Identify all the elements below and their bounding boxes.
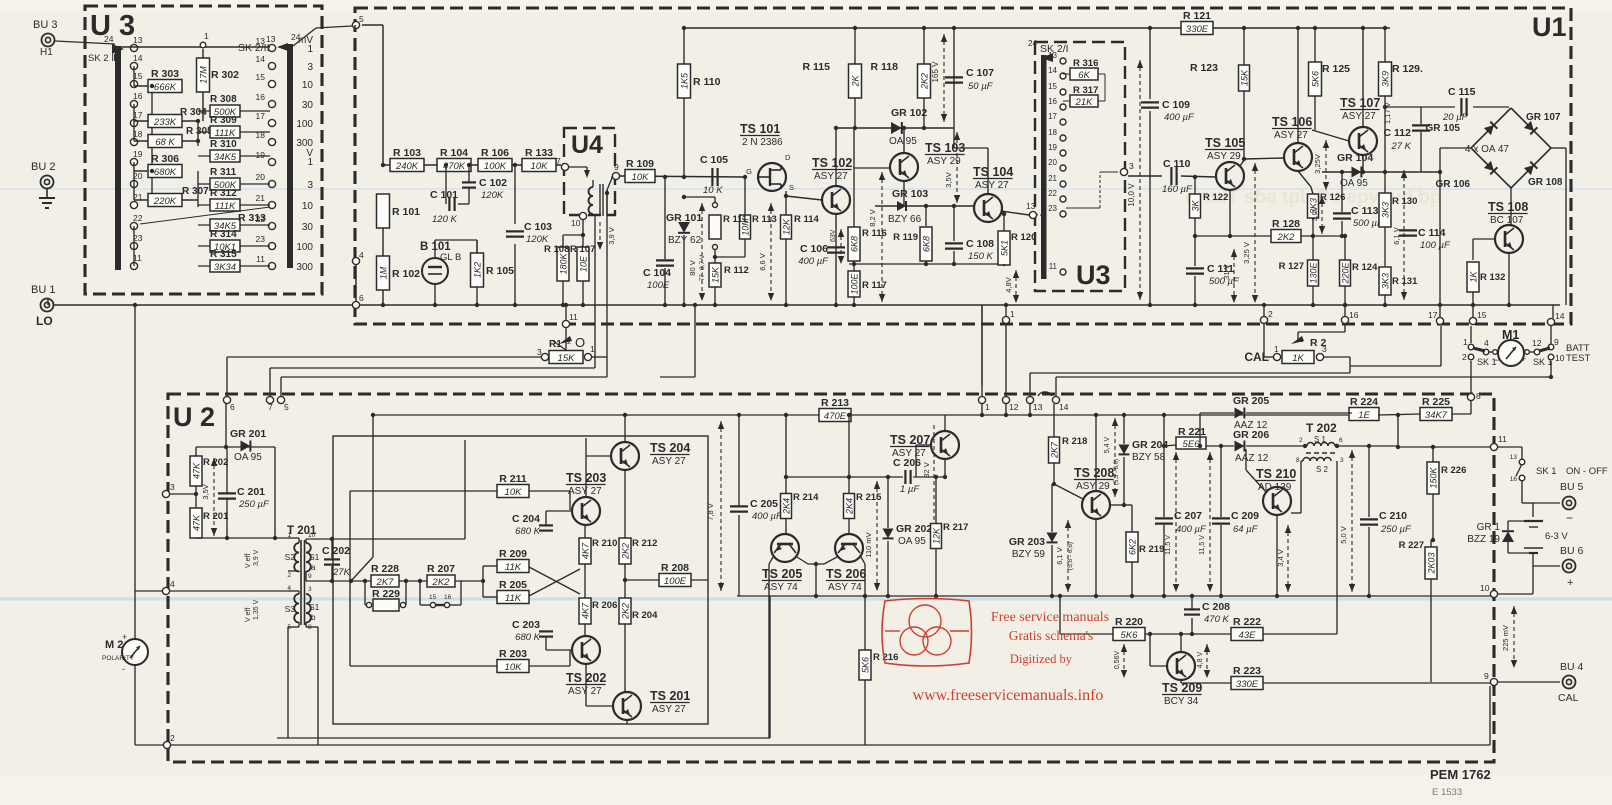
svg-text:R 111: R 111 (723, 214, 748, 225)
svg-text:23: 23 (256, 234, 266, 244)
svg-text:R 207: R 207 (427, 563, 455, 575)
svg-text:(5,3 - 6,0): (5,3 - 6,0) (1114, 459, 1120, 485)
svg-text:+: + (122, 632, 127, 642)
svg-text:S1: S1 (309, 602, 320, 612)
svg-text:GR 106: GR 106 (1436, 179, 1471, 190)
svg-text:R 204: R 204 (632, 610, 658, 621)
svg-text:R 314: R 314 (210, 229, 237, 240)
svg-text:BU 6: BU 6 (1560, 545, 1584, 557)
svg-text:1,35 V: 1,35 V (253, 599, 260, 620)
svg-text:T 202: T 202 (1306, 421, 1337, 435)
svg-text:5K6: 5K6 (861, 657, 871, 673)
svg-text:BU 3: BU 3 (33, 19, 57, 31)
svg-text:R 106: R 106 (481, 147, 509, 159)
svg-text:23: 23 (1048, 204, 1057, 213)
svg-text:Digitized by: Digitized by (1010, 652, 1073, 666)
svg-text:470E: 470E (824, 411, 847, 422)
svg-text:1K: 1K (1469, 271, 1479, 283)
svg-text:R 119: R 119 (893, 232, 918, 243)
svg-text:6-3 V: 6-3 V (1545, 531, 1568, 542)
svg-text:−: − (1494, 355, 1499, 365)
svg-text:R 132: R 132 (1480, 272, 1505, 283)
svg-text:15K: 15K (1240, 69, 1250, 86)
svg-text:27K: 27K (332, 567, 351, 578)
svg-text:GL B: GL B (440, 252, 461, 263)
svg-text:R 113: R 113 (752, 214, 777, 225)
svg-text:C 112: C 112 (1384, 127, 1412, 139)
svg-text:OA 95: OA 95 (889, 136, 917, 147)
svg-text:120 K: 120 K (432, 214, 457, 225)
svg-text:R 127: R 127 (1279, 261, 1304, 272)
svg-text:R 102: R 102 (392, 268, 420, 280)
svg-text:TS 102: TS 102 (812, 156, 852, 170)
svg-text:13: 13 (1510, 454, 1518, 461)
svg-text:GR 201: GR 201 (230, 428, 266, 440)
svg-text:H1: H1 (40, 47, 53, 58)
svg-text:2K03: 2K03 (1427, 552, 1437, 574)
svg-text:2K2: 2K2 (621, 543, 631, 560)
svg-text:R 107: R 107 (570, 244, 595, 255)
svg-text:400 µF: 400 µF (1164, 112, 1195, 123)
svg-text:680K: 680K (154, 167, 177, 178)
svg-text:18: 18 (1048, 128, 1057, 137)
svg-text:C 109: C 109 (1162, 99, 1190, 111)
svg-text:S: S (789, 183, 794, 192)
svg-text:3,9 V: 3,9 V (607, 227, 616, 245)
svg-text:110 mV: 110 mV (864, 532, 873, 557)
svg-text:S3: S3 (285, 604, 296, 614)
svg-text:50 µF: 50 µF (968, 81, 994, 92)
svg-text:5K6: 5K6 (1121, 630, 1139, 641)
svg-text:R 224: R 224 (1350, 396, 1378, 408)
svg-text:1: 1 (590, 344, 595, 354)
svg-text:BU 4: BU 4 (1560, 661, 1584, 673)
svg-text:C 207: C 207 (1174, 510, 1202, 522)
svg-text:2K: 2K (851, 75, 861, 88)
svg-text:111K: 111K (215, 201, 236, 212)
svg-text:R 110: R 110 (693, 76, 721, 88)
svg-text:16: 16 (133, 91, 143, 101)
svg-text:R 306: R 306 (151, 153, 179, 165)
svg-text:34K7: 34K7 (1425, 410, 1448, 421)
svg-text:S 2: S 2 (1316, 465, 1329, 474)
svg-text:R 206: R 206 (592, 600, 617, 611)
svg-text:20: 20 (1048, 158, 1057, 167)
svg-text:1M: 1M (379, 266, 389, 279)
svg-text:10: 10 (302, 201, 314, 212)
svg-text:1: 1 (307, 157, 313, 168)
svg-text:3: 3 (1322, 344, 1327, 354)
svg-text:D: D (785, 153, 791, 162)
svg-text:63V: 63V (830, 229, 837, 242)
svg-text:O: O (575, 335, 585, 350)
svg-text:C 102: C 102 (479, 177, 507, 189)
svg-text:680 K: 680 K (515, 632, 540, 643)
svg-text:ASY 29: ASY 29 (1076, 481, 1110, 492)
svg-text:C 205: C 205 (750, 498, 778, 510)
svg-text:ASY 27: ASY 27 (568, 486, 602, 497)
svg-text:111K: 111K (215, 128, 236, 139)
svg-text:2K2: 2K2 (621, 603, 631, 620)
svg-text:666K: 666K (154, 82, 177, 93)
svg-text:R 133: R 133 (525, 147, 553, 159)
svg-text:9: 9 (1554, 337, 1559, 347)
svg-text:8,2 V: 8,2 V (868, 209, 877, 227)
svg-text:ASY 74: ASY 74 (828, 582, 862, 593)
svg-text:7: 7 (268, 402, 273, 412)
svg-text:E 1533: E 1533 (1432, 787, 1462, 798)
svg-text:R 212: R 212 (632, 538, 657, 549)
svg-text:R 228: R 228 (371, 563, 399, 575)
svg-text:-: - (122, 664, 125, 674)
svg-text:17: 17 (1428, 310, 1438, 320)
svg-text:C 105: C 105 (700, 154, 728, 166)
svg-text:TS 106: TS 106 (1272, 115, 1312, 129)
svg-text:43E: 43E (1239, 630, 1257, 641)
svg-text:(5,8 - 6,6): (5,8 - 6,6) (1067, 542, 1074, 570)
svg-text:4,8 V: 4,8 V (1197, 652, 1204, 669)
svg-text:R 209: R 209 (499, 548, 527, 560)
svg-text:R 303: R 303 (151, 68, 179, 80)
svg-text:1: 1 (307, 44, 313, 55)
svg-text:a: a (311, 563, 316, 572)
svg-text:1: 1 (1010, 309, 1015, 319)
svg-text:17M: 17M (199, 66, 209, 84)
svg-text:POLARITY: POLARITY (102, 655, 135, 662)
svg-text:3,25 V: 3,25 V (1242, 242, 1251, 264)
svg-text:16: 16 (1349, 310, 1359, 320)
svg-text:17: 17 (256, 111, 266, 121)
svg-text:100: 100 (296, 242, 313, 253)
svg-text:R 226: R 226 (1441, 465, 1466, 476)
svg-text:2K4: 2K4 (782, 498, 792, 515)
svg-text:C 203: C 203 (512, 619, 540, 631)
svg-text:21K: 21K (1075, 97, 1094, 108)
svg-text:2K2: 2K2 (1277, 232, 1296, 243)
svg-text:GR 108: GR 108 (1528, 177, 1563, 188)
svg-text:ON - OFF: ON - OFF (1566, 466, 1608, 477)
svg-text:R 222: R 222 (1233, 616, 1261, 628)
svg-text:M 2: M 2 (105, 639, 123, 651)
svg-text:C 201: C 201 (237, 486, 265, 498)
svg-text:1: 1 (1274, 344, 1279, 354)
svg-text:80 V: 80 V (688, 260, 697, 275)
svg-text:10: 10 (308, 532, 316, 539)
svg-text:2: 2 (1299, 437, 1303, 444)
svg-text:R 120: R 120 (1011, 232, 1036, 243)
svg-text:CAL: CAL (1558, 692, 1579, 704)
svg-text:47K: 47K (192, 514, 202, 531)
svg-text:24: 24 (1028, 39, 1037, 48)
svg-text:OA 95: OA 95 (234, 452, 262, 463)
svg-text:21: 21 (1048, 174, 1057, 183)
svg-text:b: b (311, 613, 316, 622)
svg-text:R 223: R 223 (1233, 665, 1261, 677)
svg-text:3: 3 (537, 347, 542, 357)
svg-text:SK 2/II: SK 2/II (238, 42, 270, 54)
svg-text:30: 30 (302, 222, 314, 233)
svg-text:10: 10 (571, 218, 581, 228)
svg-text:R 220: R 220 (1115, 616, 1143, 628)
svg-text:R 218: R 218 (1062, 436, 1087, 447)
svg-text:6K2: 6K2 (1128, 539, 1138, 555)
svg-text:4 x OA 47: 4 x OA 47 (1465, 144, 1509, 155)
svg-text:ASY 29: ASY 29 (1207, 151, 1241, 162)
svg-text:ASY 27: ASY 27 (1274, 130, 1308, 141)
svg-text:TS 105: TS 105 (1205, 136, 1245, 150)
svg-text:GR 1: GR 1 (1477, 522, 1501, 533)
svg-text:19: 19 (133, 149, 143, 159)
svg-text:SK 1: SK 1 (1536, 466, 1557, 477)
svg-text:TS 107: TS 107 (1340, 96, 1380, 110)
svg-text:2 N 2386: 2 N 2386 (742, 137, 783, 148)
svg-text:400 µF: 400 µF (798, 256, 829, 267)
svg-text:R 211: R 211 (499, 473, 527, 485)
svg-text:R 219: R 219 (1139, 544, 1164, 555)
svg-text:120K: 120K (481, 190, 504, 201)
svg-text:130E: 130E (1309, 261, 1319, 283)
svg-text:AAZ 12: AAZ 12 (1235, 453, 1269, 464)
svg-text:1E: 1E (1358, 410, 1370, 421)
svg-text:1,17 V: 1,17 V (1383, 102, 1392, 124)
svg-text:9: 9 (308, 573, 312, 580)
svg-text:TS 208: TS 208 (1074, 466, 1114, 480)
svg-text:GR 107: GR 107 (1526, 112, 1561, 123)
svg-text:R 129.: R 129. (1392, 63, 1423, 75)
svg-text:21: 21 (256, 193, 266, 203)
svg-text:+: + (1521, 354, 1526, 364)
svg-text:Free service manuals: Free service manuals (991, 610, 1109, 625)
svg-text:R 210: R 210 (592, 538, 617, 549)
svg-text:1: 1 (1463, 337, 1468, 347)
svg-text:GR 202: GR 202 (896, 523, 932, 535)
svg-text:5K6: 5K6 (1311, 71, 1321, 87)
svg-text:11: 11 (1498, 434, 1507, 444)
svg-text:10: 10 (1480, 583, 1490, 593)
svg-text:V eff: V eff (245, 608, 252, 622)
svg-text:ASY 27: ASY 27 (814, 171, 848, 182)
svg-text:13: 13 (133, 35, 143, 45)
svg-text:19: 19 (256, 150, 266, 160)
svg-text:C 113: C 113 (1351, 205, 1379, 217)
svg-text:1: 1 (204, 31, 209, 41)
svg-text:220K: 220K (153, 196, 177, 207)
svg-text:20: 20 (256, 172, 266, 182)
svg-text:C 101: C 101 (430, 189, 458, 201)
svg-text:180K: 180K (559, 252, 569, 274)
svg-text:400 µF: 400 µF (752, 511, 783, 522)
svg-text:233K: 233K (153, 117, 177, 128)
svg-text:250 µF: 250 µF (238, 499, 270, 510)
svg-text:5E6: 5E6 (1183, 439, 1201, 450)
svg-text:4: 4 (1484, 338, 1489, 348)
svg-text:13: 13 (1026, 201, 1036, 211)
svg-text:R 309: R 309 (210, 115, 237, 126)
svg-text:−: − (1566, 511, 1573, 525)
svg-text:5: 5 (284, 402, 289, 412)
svg-text:14: 14 (1048, 66, 1057, 75)
svg-text:GR 203: GR 203 (1009, 536, 1045, 548)
svg-text:3K: 3K (1191, 200, 1201, 212)
svg-text:C 209: C 209 (1231, 510, 1259, 522)
svg-text:R 311: R 311 (210, 167, 237, 178)
svg-text:3K3: 3K3 (1381, 273, 1391, 289)
svg-text:R 130: R 130 (1392, 196, 1417, 207)
svg-text:400 µF: 400 µF (1176, 524, 1207, 535)
svg-text:SK 2 Ⅲ: SK 2 Ⅲ (88, 53, 118, 64)
svg-text:BU 5: BU 5 (1560, 481, 1584, 493)
svg-text:R 112: R 112 (724, 265, 749, 276)
svg-text:68 K: 68 K (155, 137, 175, 148)
svg-text:12K: 12K (932, 527, 942, 544)
svg-text:ASY 27: ASY 27 (652, 456, 686, 467)
svg-text:TS 201: TS 201 (650, 689, 690, 703)
svg-text:R 122: R 122 (1203, 192, 1228, 203)
svg-text:15: 15 (429, 594, 437, 601)
svg-text:12: 12 (1532, 338, 1542, 348)
svg-text:V eff: V eff (245, 554, 252, 568)
svg-text:ASY 27: ASY 27 (568, 686, 602, 697)
svg-text:www.freeservicemanuals.info: www.freeservicemanuals.info (913, 687, 1104, 704)
svg-text:R 310: R 310 (210, 139, 237, 150)
svg-text:1K: 1K (1292, 353, 1304, 364)
svg-text:2: 2 (287, 572, 291, 579)
svg-text:AD 139: AD 139 (1258, 482, 1292, 493)
svg-text:R 221: R 221 (1178, 426, 1206, 438)
svg-text:20 µF: 20 µF (1442, 112, 1469, 123)
svg-text:GR 206: GR 206 (1233, 429, 1269, 441)
svg-text:11,5 V: 11,5 V (1165, 535, 1172, 555)
svg-text:19: 19 (1048, 143, 1057, 152)
svg-text:16: 16 (444, 594, 452, 601)
svg-text:3,25V: 3,25V (1313, 154, 1322, 174)
svg-text:2K7: 2K7 (376, 577, 395, 588)
svg-text:330E: 330E (1186, 24, 1209, 35)
svg-text:BCY 34: BCY 34 (1164, 696, 1199, 707)
svg-text:47K: 47K (192, 462, 202, 479)
svg-text:7: 7 (556, 156, 561, 166)
svg-text:22: 22 (133, 213, 143, 223)
svg-text:1K5: 1K5 (680, 72, 690, 89)
svg-text:R 307: R 307 (182, 186, 209, 197)
svg-text:13: 13 (1048, 51, 1057, 60)
svg-text:R 313: R 313 (238, 212, 266, 224)
svg-text:ASY 27: ASY 27 (1342, 111, 1376, 122)
svg-text:16: 16 (1048, 97, 1057, 106)
svg-text:15K: 15K (711, 266, 721, 283)
svg-text:11: 11 (256, 254, 265, 264)
svg-text:10K: 10K (531, 161, 549, 172)
svg-text:9: 9 (1484, 671, 1489, 681)
svg-text:R 308: R 308 (210, 94, 237, 105)
svg-text:10: 10 (302, 80, 314, 91)
svg-text:2K7: 2K7 (1050, 441, 1060, 459)
svg-text:GR 101: GR 101 (666, 212, 702, 224)
svg-text:100E: 100E (647, 280, 670, 291)
svg-text:R 227: R 227 (1399, 540, 1424, 551)
svg-text:14: 14 (1555, 311, 1565, 321)
svg-text:3: 3 (308, 586, 312, 593)
svg-text:R 215: R 215 (856, 492, 882, 503)
svg-text:3K9: 3K9 (1381, 71, 1391, 87)
svg-text:100E: 100E (850, 272, 860, 294)
svg-text:3: 3 (1129, 161, 1134, 171)
svg-text:13: 13 (266, 34, 276, 44)
svg-text:3: 3 (170, 482, 175, 492)
svg-text:TS 204: TS 204 (650, 441, 690, 455)
svg-text:5,0 V: 5,0 V (1339, 526, 1348, 544)
svg-text:15: 15 (1048, 82, 1057, 91)
svg-text:GR 105: GR 105 (1426, 123, 1461, 134)
svg-text:10,0 V: 10,0 V (1127, 183, 1136, 207)
svg-text:R 123: R 123 (1190, 62, 1218, 74)
svg-text:5,4 V: 5,4 V (1104, 437, 1111, 454)
svg-text:R 312: R 312 (210, 188, 237, 199)
svg-text:150K: 150K (1429, 466, 1439, 488)
svg-text:C 106: C 106 (800, 243, 828, 255)
svg-text:R 217: R 217 (943, 522, 968, 533)
svg-text:BC 107: BC 107 (1490, 215, 1524, 226)
svg-text:16: 16 (1510, 476, 1518, 483)
svg-text:ASY 27: ASY 27 (975, 180, 1009, 191)
svg-text:G: G (746, 167, 752, 176)
svg-text:R 316: R 316 (1073, 58, 1098, 69)
svg-text:LO: LO (36, 314, 53, 328)
svg-text:6,1 V: 6,1 V (1055, 547, 1064, 565)
svg-text:U1: U1 (1532, 12, 1567, 42)
svg-text:6K: 6K (1078, 70, 1090, 81)
svg-text:10: 10 (1555, 353, 1565, 363)
svg-text:3: 3 (1340, 457, 1344, 464)
svg-text:12: 12 (1009, 402, 1019, 412)
svg-text:M1: M1 (1502, 328, 1519, 342)
svg-text:R 109: R 109 (626, 158, 654, 170)
svg-text:BZZ 19: BZZ 19 (1467, 534, 1500, 545)
svg-text:R 104: R 104 (440, 147, 468, 159)
svg-text:11,5 V: 11,5 V (1199, 535, 1206, 555)
svg-text:2: 2 (567, 337, 571, 346)
svg-text:15: 15 (256, 72, 266, 82)
svg-text:U 2: U 2 (173, 402, 215, 432)
svg-text:PEM 1762: PEM 1762 (1430, 767, 1491, 782)
svg-text:3: 3 (307, 180, 313, 191)
svg-text:TS 206: TS 206 (826, 567, 866, 581)
svg-text:R 203: R 203 (499, 648, 527, 660)
svg-text:R 105: R 105 (486, 265, 514, 277)
svg-text:R 115: R 115 (803, 61, 831, 73)
svg-text:13: 13 (1033, 402, 1043, 412)
svg-text:240K: 240K (395, 161, 419, 172)
svg-text:4: 4 (170, 579, 175, 589)
svg-text:6: 6 (230, 402, 235, 412)
svg-text:2: 2 (170, 733, 175, 743)
svg-text:11K: 11K (505, 562, 522, 573)
svg-text:TEST: TEST (1566, 353, 1590, 364)
svg-text:3K3: 3K3 (1381, 202, 1391, 218)
svg-text:R 117: R 117 (862, 280, 887, 291)
svg-text:Gratis schema's: Gratis schema's (1009, 628, 1094, 643)
svg-text:C 110: C 110 (1163, 158, 1191, 170)
svg-text:R 225: R 225 (1422, 396, 1450, 408)
svg-text:100 µF: 100 µF (1420, 240, 1451, 251)
svg-text:3K34: 3K34 (214, 262, 236, 273)
svg-text:10 K: 10 K (703, 185, 723, 196)
svg-text:BZY 62: BZY 62 (668, 235, 702, 246)
svg-text:30: 30 (302, 100, 314, 111)
svg-text:6,6 V: 6,6 V (758, 253, 767, 271)
svg-text:10K: 10K (632, 172, 650, 183)
svg-text:14: 14 (133, 53, 143, 63)
